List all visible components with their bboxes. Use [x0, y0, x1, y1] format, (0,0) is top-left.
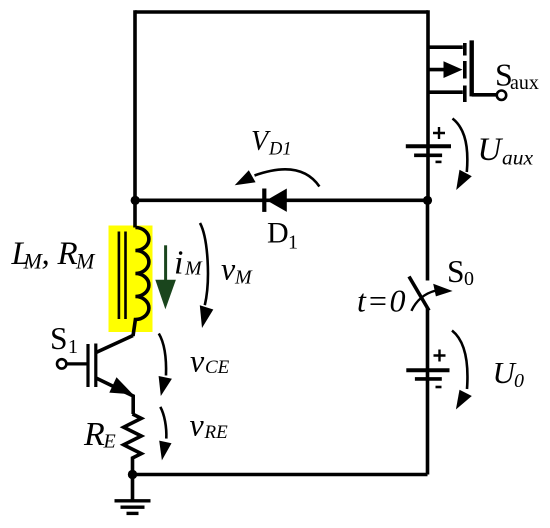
transistor S1 gate wire: [67, 362, 87, 365]
svg-text:V: V: [251, 126, 271, 157]
transistor S1 body bar: [94, 344, 97, 388]
svg-text:U: U: [478, 132, 504, 168]
battery Uaux short plate: [414, 154, 442, 158]
svg-text:1: 1: [68, 336, 78, 358]
svg-text:D1: D1: [268, 140, 292, 160]
inductor coil: [133, 228, 149, 337]
switch S0 blade: [409, 277, 429, 311]
transistor S1 emitter arrow: [109, 377, 133, 394]
mosfet Saux gate wire: [472, 93, 496, 97]
wire top horizontal: [135, 10, 428, 14]
switch S0 motion arc: [411, 291, 436, 311]
node left of diode wire: [131, 196, 140, 205]
battery Uaux plus sign: [433, 127, 445, 139]
transistor S1 gate terminal circle: [57, 359, 66, 368]
arrow U0: [452, 331, 467, 390]
svg-text:S: S: [50, 321, 68, 356]
node right of diode wire: [423, 196, 432, 205]
svg-text:E: E: [103, 431, 116, 453]
highlight box over magnetizing inductance: [109, 226, 153, 333]
svg-text:M: M: [234, 267, 253, 289]
svg-text:0: 0: [464, 268, 474, 290]
svg-text:1: 1: [288, 232, 298, 254]
svg-text:aux: aux: [510, 72, 539, 94]
mosfet Saux source stub: [428, 90, 463, 94]
mosfet Saux body arrow: [428, 68, 446, 72]
svg-text:R: R: [83, 416, 105, 453]
switch S0 motion arrowhead: [433, 284, 452, 297]
svg-text:v: v: [190, 343, 205, 379]
svg-text:v: v: [221, 251, 236, 287]
battery U0 short plate: [415, 377, 442, 381]
current arrow iM (green): [164, 245, 167, 280]
svg-text:S: S: [447, 254, 465, 289]
svg-text:,: ,: [42, 236, 50, 272]
battery Uaux long plate: [406, 144, 451, 148]
battery U0 minus sign: [436, 386, 442, 389]
arrow vCE arc: [159, 334, 166, 376]
arrow Uaux: [453, 119, 468, 173]
node emitter-ground: [128, 470, 137, 479]
arrow vM arc: [200, 223, 208, 305]
transistor S1 emitter: [96, 378, 133, 414]
svg-text:aux: aux: [502, 146, 534, 170]
diode D1 triangle: [267, 189, 287, 212]
svg-text:i: i: [174, 245, 183, 282]
diode D1 cathode bar: [262, 189, 266, 212]
battery U0 long plate: [406, 368, 449, 372]
wire left vertical: [133, 10, 137, 227]
svg-text:M: M: [184, 258, 203, 280]
svg-text:v: v: [190, 407, 205, 443]
transistor S1 gate bar: [86, 344, 89, 387]
wire right vertical upper: [426, 10, 430, 200]
wire right vertical lower: [426, 308, 430, 475]
svg-text:M: M: [23, 249, 44, 274]
battery U0 plus sign: [434, 350, 446, 362]
svg-text:CE: CE: [205, 357, 230, 378]
resistor RE zigzag: [124, 414, 142, 475]
svg-text:t=0: t=0: [357, 283, 406, 319]
mosfet Saux gate bar: [470, 40, 474, 96]
inductor core lines: [119, 232, 126, 320]
svg-text:R: R: [57, 236, 78, 272]
wire bottom horizontal: [133, 473, 428, 477]
mosfet Saux channel bar (dashed): [463, 43, 467, 102]
transistor S1 collector: [96, 336, 133, 353]
wire right vertical to switch: [426, 200, 430, 281]
svg-text:RE: RE: [204, 422, 229, 443]
mosfet Saux drain stub: [428, 45, 463, 49]
svg-text:M: M: [75, 249, 96, 274]
arrow vRE arc: [160, 407, 166, 439]
mosfet Saux gate terminal circle: [497, 91, 506, 100]
ground: [131, 475, 135, 500]
wire diode horizontal: [135, 199, 428, 203]
battery Uaux minus sign: [436, 161, 442, 164]
svg-text:0: 0: [514, 370, 524, 392]
svg-text:D: D: [267, 217, 289, 250]
arrow VD1 arc: [255, 169, 320, 186]
